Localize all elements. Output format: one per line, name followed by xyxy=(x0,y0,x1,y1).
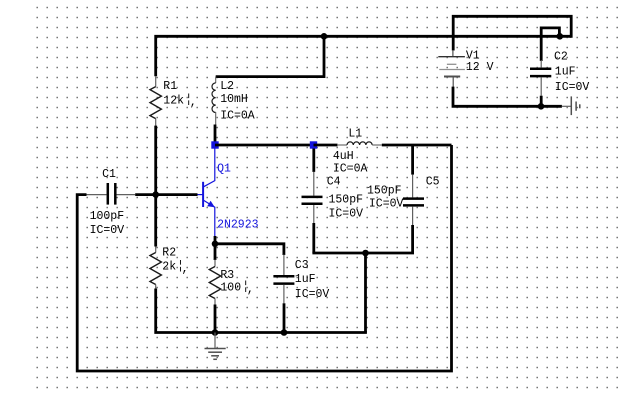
svg-text:150pF: 150pF xyxy=(367,184,402,197)
svg-text:100: 100 xyxy=(220,281,241,294)
junction C3 bottom xyxy=(281,329,288,336)
capacitor C4 xyxy=(302,149,323,254)
ground (right of V1, rotated) xyxy=(562,96,580,115)
wire C2 hook to top rail xyxy=(541,28,559,61)
junction C2 hook on top rail xyxy=(557,33,564,40)
inductor L2 xyxy=(212,77,216,125)
svg-text:C4: C4 xyxy=(327,175,341,188)
wire emitter node to C3 xyxy=(215,244,284,255)
svg-text:IC=0V: IC=0V xyxy=(329,208,364,221)
wire inner ground rail xyxy=(156,289,367,333)
svg-text:,: , xyxy=(247,284,254,297)
wire L2 branch to top rail xyxy=(216,36,324,76)
wire left vertical R1 to R2 xyxy=(154,126,157,247)
wire base xyxy=(156,193,198,196)
svg-text:2k: 2k xyxy=(162,261,176,274)
wire emitter to emitter node xyxy=(214,236,217,244)
svg-text:IC=0V: IC=0V xyxy=(555,81,590,94)
wire collector to tank xyxy=(215,144,314,147)
voltage source V1 xyxy=(438,50,465,87)
svg-text:10mH: 10mH xyxy=(220,93,248,106)
svg-text:C1: C1 xyxy=(102,168,116,181)
resistor R3 xyxy=(209,244,220,333)
transistor Q1 xyxy=(197,149,215,237)
svg-text:R2: R2 xyxy=(162,246,176,259)
junction R3 bottom xyxy=(212,329,219,336)
svg-text:C5: C5 xyxy=(426,175,440,188)
node collector (blue handle) xyxy=(211,141,218,148)
junction C2 bottom xyxy=(538,103,545,110)
svg-text:12 V: 12 V xyxy=(466,61,494,74)
svg-text:2N2923: 2N2923 xyxy=(217,218,259,231)
wire V1 top loop xyxy=(453,16,571,50)
resistor R2 xyxy=(150,247,161,290)
svg-text:100pF: 100pF xyxy=(90,210,125,223)
svg-text:IC=0V: IC=0V xyxy=(369,197,404,210)
svg-text:4uH: 4uH xyxy=(333,150,354,163)
node tank input (blue handle) xyxy=(310,141,317,148)
svg-text:C3: C3 xyxy=(295,259,309,272)
svg-text:C2: C2 xyxy=(554,51,568,64)
junction tank bottom xyxy=(362,250,369,257)
svg-text:IC=0V: IC=0V xyxy=(90,224,125,237)
capacitor C3 xyxy=(273,255,294,333)
svg-text:150pF: 150pF xyxy=(329,194,364,207)
svg-text:L1: L1 xyxy=(348,127,362,140)
capacitor C5 xyxy=(403,145,424,253)
svg-text:12k: 12k xyxy=(163,94,184,107)
svg-text:R1: R1 xyxy=(163,80,177,93)
svg-text:IC=0V: IC=0V xyxy=(295,288,330,301)
wire tank top xyxy=(314,144,452,147)
junction top rail / L2 branch xyxy=(321,33,328,40)
capacitor C1 xyxy=(86,183,156,205)
wire tank bottom xyxy=(312,252,414,255)
svg-text:IC=0A: IC=0A xyxy=(333,162,368,175)
svg-text:Q1: Q1 xyxy=(217,163,231,176)
svg-text:,: , xyxy=(182,263,189,276)
ground (bottom) xyxy=(205,333,226,360)
svg-text:,: , xyxy=(190,97,197,110)
wire top rail xyxy=(156,36,572,76)
resistor R1 xyxy=(150,76,161,126)
svg-text:IC=0A: IC=0A xyxy=(220,110,255,123)
svg-text:1uF: 1uF xyxy=(295,273,316,286)
svg-text:R3: R3 xyxy=(220,269,234,282)
capacitor C2 xyxy=(530,60,551,106)
wire L2 to collector node xyxy=(214,125,217,146)
junction base node xyxy=(152,191,159,198)
inductor L1 xyxy=(337,142,382,145)
junction emitter node xyxy=(212,241,219,248)
svg-text:L2: L2 xyxy=(220,80,234,93)
svg-text:1uF: 1uF xyxy=(555,66,576,79)
wire V1 bottom to ground rail xyxy=(453,87,562,107)
wire feedback loop (C1 left, bottom, right riser) xyxy=(77,145,451,371)
wire tank bottom to ground rail xyxy=(364,253,367,333)
